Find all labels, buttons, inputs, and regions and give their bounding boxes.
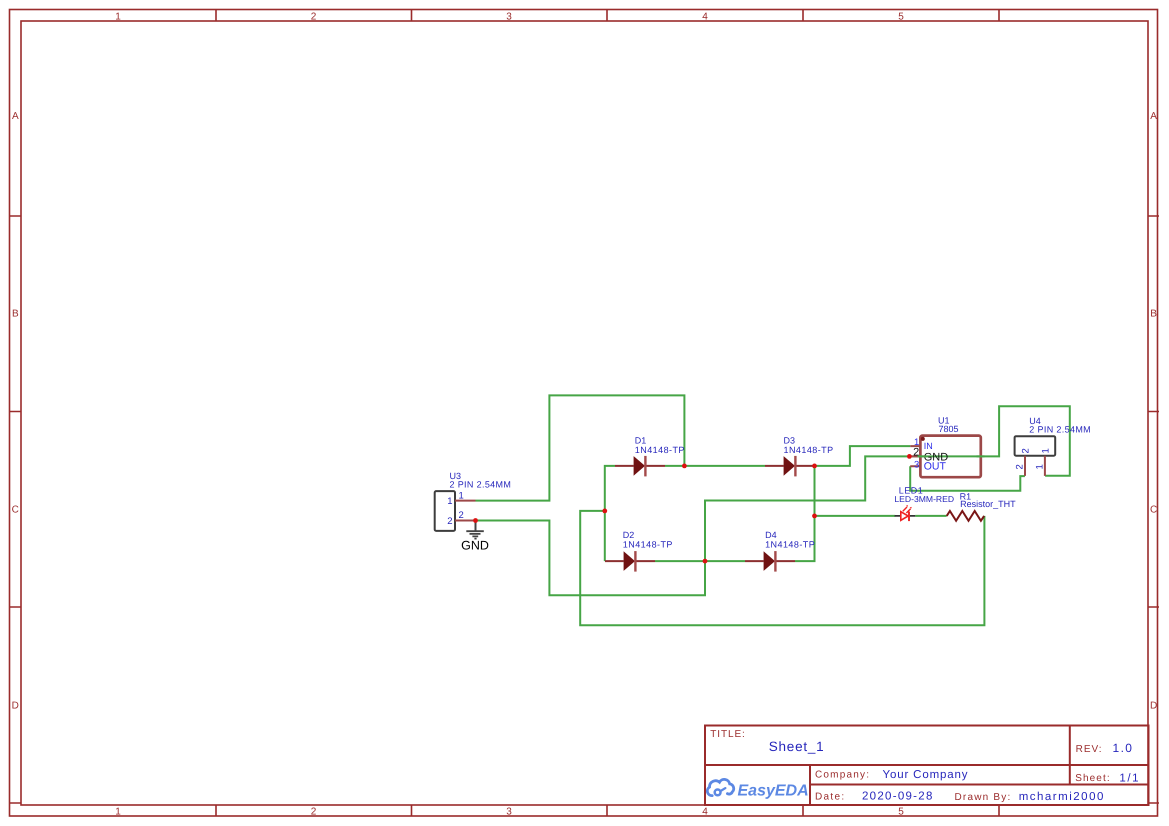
svg-text:IN: IN bbox=[924, 441, 933, 451]
junction D1 anode branch bbox=[602, 509, 607, 514]
svg-text:2: 2 bbox=[459, 510, 464, 521]
svg-text:2 PIN 2.54MM: 2 PIN 2.54MM bbox=[1029, 424, 1091, 434]
svg-text:2: 2 bbox=[1015, 464, 1026, 469]
junction U3 pin2 bbox=[473, 518, 478, 523]
svg-text:EasyEDA: EasyEDA bbox=[738, 783, 809, 800]
svg-text:C: C bbox=[1150, 505, 1157, 516]
connector U3 bbox=[435, 490, 476, 531]
svg-text:Drawn By:: Drawn By: bbox=[955, 792, 1012, 803]
svg-text:1: 1 bbox=[1034, 464, 1045, 469]
svg-text:7805: 7805 bbox=[939, 424, 959, 434]
svg-text:Sheet:: Sheet: bbox=[1075, 773, 1111, 784]
svg-text:GND: GND bbox=[461, 539, 489, 553]
svg-text:mcharmi2000: mcharmi2000 bbox=[1019, 791, 1105, 803]
svg-text:1/1: 1/1 bbox=[1119, 772, 1140, 784]
svg-text:1: 1 bbox=[447, 496, 452, 507]
svg-text:D: D bbox=[12, 701, 19, 712]
resistor R1 bbox=[947, 511, 984, 521]
svg-text:3: 3 bbox=[914, 460, 919, 471]
svg-text:1.0: 1.0 bbox=[1113, 741, 1134, 755]
junction D1 cathode node bbox=[682, 464, 687, 469]
svg-text:B: B bbox=[1150, 309, 1157, 320]
wire net from U3 pin1 to D1 cathode (top rail) bbox=[476, 395, 685, 500]
svg-text:2020-09-28: 2020-09-28 bbox=[862, 791, 934, 803]
svg-text:Date:: Date: bbox=[815, 792, 845, 803]
svg-text:REV:: REV: bbox=[1076, 744, 1103, 755]
title block bbox=[705, 726, 1149, 806]
svg-text:Sheet_1: Sheet_1 bbox=[769, 739, 825, 754]
svg-text:A: A bbox=[12, 111, 19, 122]
svg-text:A: A bbox=[1150, 111, 1157, 122]
svg-text:2: 2 bbox=[447, 516, 452, 527]
svg-text:2: 2 bbox=[311, 11, 317, 22]
wire branch to bottom rail bbox=[580, 511, 984, 625]
diode D3 bbox=[765, 456, 815, 477]
wire D1 anode column down to D2 anode bbox=[605, 466, 615, 561]
ground GND bbox=[461, 521, 489, 553]
connector U4 bbox=[1015, 436, 1056, 476]
svg-text:LED-3MM-RED: LED-3MM-RED bbox=[894, 494, 954, 504]
svg-text:1N4148-TP: 1N4148-TP bbox=[784, 445, 834, 455]
svg-text:1N4148-TP: 1N4148-TP bbox=[765, 540, 815, 550]
wire U3 pin2 GND rail bbox=[476, 406, 1070, 595]
wire U1 OUT to U4 pin2 bbox=[910, 466, 1025, 490]
junction D2-D4 node bbox=[703, 559, 708, 564]
svg-text:C: C bbox=[12, 505, 19, 516]
wire LED cathode to R1 bbox=[915, 515, 946, 517]
svg-text:5: 5 bbox=[898, 807, 904, 818]
svg-text:4: 4 bbox=[702, 807, 708, 818]
LED LED1 bbox=[895, 505, 916, 521]
diode D2 bbox=[605, 551, 655, 572]
svg-text:1: 1 bbox=[115, 11, 121, 22]
junction D3 cathode node bbox=[812, 464, 817, 469]
wire D4 cathode up to D3 cathode bbox=[795, 466, 815, 561]
wire D1 cathode to D3 anode bbox=[665, 465, 765, 467]
svg-text:OUT: OUT bbox=[924, 461, 947, 473]
svg-text:4: 4 bbox=[702, 11, 708, 22]
EasyEDA logo bbox=[707, 779, 808, 799]
junction U1 pin2 GND node bbox=[907, 454, 912, 459]
svg-text:2: 2 bbox=[1021, 448, 1032, 453]
svg-text:1N4148-TP: 1N4148-TP bbox=[635, 445, 685, 455]
svg-text:Your Company: Your Company bbox=[883, 769, 969, 781]
wire GND rail crossing U1 edges bbox=[918, 455, 985, 457]
svg-text:1: 1 bbox=[459, 490, 464, 501]
svg-text:1: 1 bbox=[115, 807, 121, 818]
svg-text:3: 3 bbox=[506, 11, 512, 22]
svg-text:5: 5 bbox=[898, 11, 904, 22]
svg-text:B: B bbox=[12, 309, 19, 320]
wire LED row from junction to LED anode bbox=[815, 515, 896, 517]
svg-text:Resistor_THT: Resistor_THT bbox=[960, 499, 1016, 509]
svg-text:2: 2 bbox=[311, 807, 317, 818]
svg-text:3: 3 bbox=[506, 807, 512, 818]
svg-text:TITLE:: TITLE: bbox=[710, 729, 745, 740]
diode D1 bbox=[615, 456, 665, 477]
svg-text:1: 1 bbox=[1040, 448, 1051, 453]
diode D4 bbox=[745, 551, 795, 572]
wire D2 cathode to D4 anode bbox=[655, 560, 745, 562]
op-amp U1 regulator 7805 bbox=[909, 436, 980, 478]
wire D3 cathode to U1 IN bbox=[815, 446, 911, 466]
svg-text:1N4148-TP: 1N4148-TP bbox=[623, 540, 673, 550]
junction LED row node bbox=[812, 514, 817, 519]
svg-text:2 PIN 2.54MM: 2 PIN 2.54MM bbox=[450, 480, 512, 490]
svg-text:Company:: Company: bbox=[815, 770, 870, 781]
svg-text:D: D bbox=[1150, 701, 1157, 712]
